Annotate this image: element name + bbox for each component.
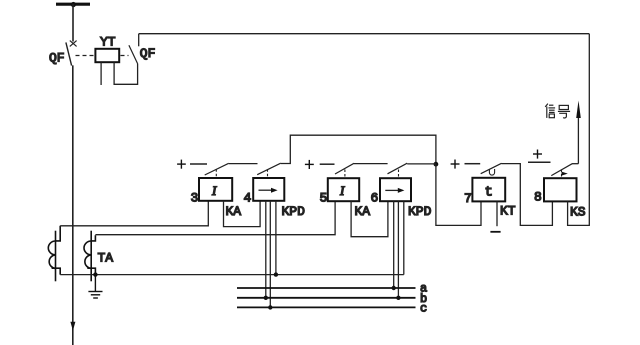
relay KPD1 box 4 <box>253 178 284 201</box>
node coil4-c <box>268 305 272 309</box>
voltage bus c <box>237 306 416 308</box>
svg-text:KT: KT <box>500 204 516 219</box>
wire dashed link contact8 <box>561 170 563 179</box>
svg-text:t: t <box>485 185 493 201</box>
svg-text:KPD: KPD <box>408 204 432 219</box>
contact KPD-1 blade <box>257 163 281 175</box>
relay KPD2 box 6 <box>380 178 411 201</box>
node CT ground junction <box>93 272 97 276</box>
svg-text:8: 8 <box>534 190 542 205</box>
wire junction A to KT coil <box>436 164 481 225</box>
svg-text:QF: QF <box>49 51 65 66</box>
current transformer TA right winding <box>84 231 95 282</box>
contact KA-1 blade <box>205 163 229 175</box>
wire coil4 lead return <box>275 201 277 275</box>
wire dashed link QF to YT <box>76 55 96 57</box>
relay KA1 box 3 <box>199 178 232 201</box>
node coil4-return <box>274 272 278 276</box>
wire dashed link contact4 <box>267 169 269 177</box>
wire coil4 lead b <box>265 201 267 298</box>
symbol arrow in box 6 <box>385 189 398 191</box>
wire contact3 to contact4 <box>229 163 258 165</box>
busbar <box>56 3 90 6</box>
node plus supply 2 <box>305 160 314 169</box>
arrow feeder direction <box>70 322 75 331</box>
wire KT right lead <box>496 201 498 226</box>
wire KS right lead return <box>568 34 590 226</box>
wire main feeder lower <box>72 65 74 345</box>
wire coil6 lead return <box>403 201 405 274</box>
svg-text:QF: QF <box>140 46 156 61</box>
svg-text:3: 3 <box>191 191 199 206</box>
voltage bus b <box>237 297 416 299</box>
svg-text:KA: KA <box>355 204 371 219</box>
svg-text:KS: KS <box>570 205 586 220</box>
wire QF aux top terminal <box>138 34 140 47</box>
svg-text:KA: KA <box>226 204 242 219</box>
svg-text:c: c <box>420 302 427 316</box>
node coil6-a <box>392 286 396 290</box>
wire dashed link contact3 <box>215 169 217 177</box>
node plus supply 4 <box>533 150 542 159</box>
wire dashed link contact6 <box>398 170 400 178</box>
relay KA2 box 5 <box>328 178 359 201</box>
voltage bus a <box>237 287 416 289</box>
wire coil6 lead b <box>397 201 399 298</box>
symbol contact8 flag <box>562 172 568 176</box>
trip coil YT box <box>95 49 119 62</box>
contact KPD-2 blade <box>388 163 408 174</box>
wire main feeder upper <box>72 4 74 42</box>
wire contact5 to contact6 <box>354 163 388 165</box>
wire CT secondary top (to coil 3) <box>60 201 208 226</box>
contact KPD delayed blade <box>481 163 502 173</box>
wire CT secondary mid (to coil 5) <box>95 201 335 235</box>
wire group1 output riser <box>281 135 436 164</box>
ground <box>88 275 102 298</box>
node junction A <box>434 162 439 167</box>
node coil6-b <box>396 296 400 300</box>
wire dashed link contact5 <box>344 170 346 178</box>
wire coil3 right lead to coil4 <box>224 201 261 227</box>
svg-text:YT: YT <box>100 35 116 50</box>
node plus supply 3 <box>451 160 460 169</box>
wire contact6 to junction A <box>407 163 436 165</box>
wire plus stub 4 <box>528 161 551 163</box>
wire coil4 lead c <box>269 201 271 308</box>
node busbar tap <box>71 2 76 7</box>
wire top rail <box>139 33 590 35</box>
svg-text:4: 4 <box>244 191 252 206</box>
wire plus stub 3 <box>465 163 481 165</box>
relay KT box 7 <box>472 178 505 202</box>
symbol time-delay cup <box>489 169 494 175</box>
wire contact8 tip stub <box>572 163 578 165</box>
current transformer TA left winding <box>48 226 60 281</box>
node coil4-b <box>264 296 268 300</box>
breaker QF blade <box>66 42 72 65</box>
wire YT right lead to QF aux <box>114 62 138 84</box>
wire contact7 to KS coil <box>502 164 553 226</box>
relay KS box 8 <box>544 178 577 201</box>
svg-text:5: 5 <box>320 191 328 206</box>
contact KA-2 blade <box>335 163 354 174</box>
wire CT secondary return <box>60 274 404 276</box>
contact KS blade <box>551 164 572 176</box>
symbol arrow in box 4 <box>259 189 272 191</box>
wire dashed YT to QF aux <box>121 55 129 57</box>
node minus supply <box>490 231 500 233</box>
breaker QF cross mark <box>70 41 77 47</box>
label 信号 <box>545 104 570 118</box>
contact QF auxiliary blade <box>129 45 138 64</box>
svg-text:7: 7 <box>464 191 472 206</box>
node plus supply 1 <box>177 160 186 169</box>
svg-text:6: 6 <box>371 191 379 206</box>
wire plus stub 2 <box>320 163 335 165</box>
arrow signal <box>576 101 581 119</box>
wire coil6 lead a <box>393 201 395 288</box>
svg-text:KPD: KPD <box>282 204 306 219</box>
wire signal riser <box>577 116 579 164</box>
wire YT left lead <box>100 62 102 85</box>
svg-text:I: I <box>339 183 345 198</box>
wire coil5 right lead to coil6 <box>351 201 388 237</box>
wire plus stub 1 <box>190 163 207 165</box>
svg-text:TA: TA <box>98 251 114 266</box>
svg-text:I: I <box>211 183 217 198</box>
